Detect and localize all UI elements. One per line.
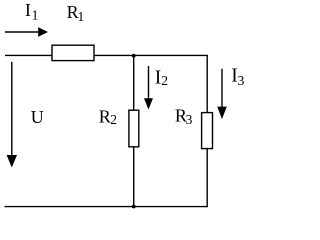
svg-text:2: 2 (161, 73, 168, 88)
svg-text:R: R (99, 106, 111, 126)
svg-text:U: U (31, 107, 44, 127)
svg-text:1: 1 (78, 9, 85, 24)
svg-text:3: 3 (186, 112, 193, 127)
svg-text:3: 3 (237, 74, 244, 89)
svg-text:I: I (25, 0, 31, 20)
svg-text:2: 2 (110, 112, 117, 127)
svg-text:1: 1 (32, 8, 39, 23)
